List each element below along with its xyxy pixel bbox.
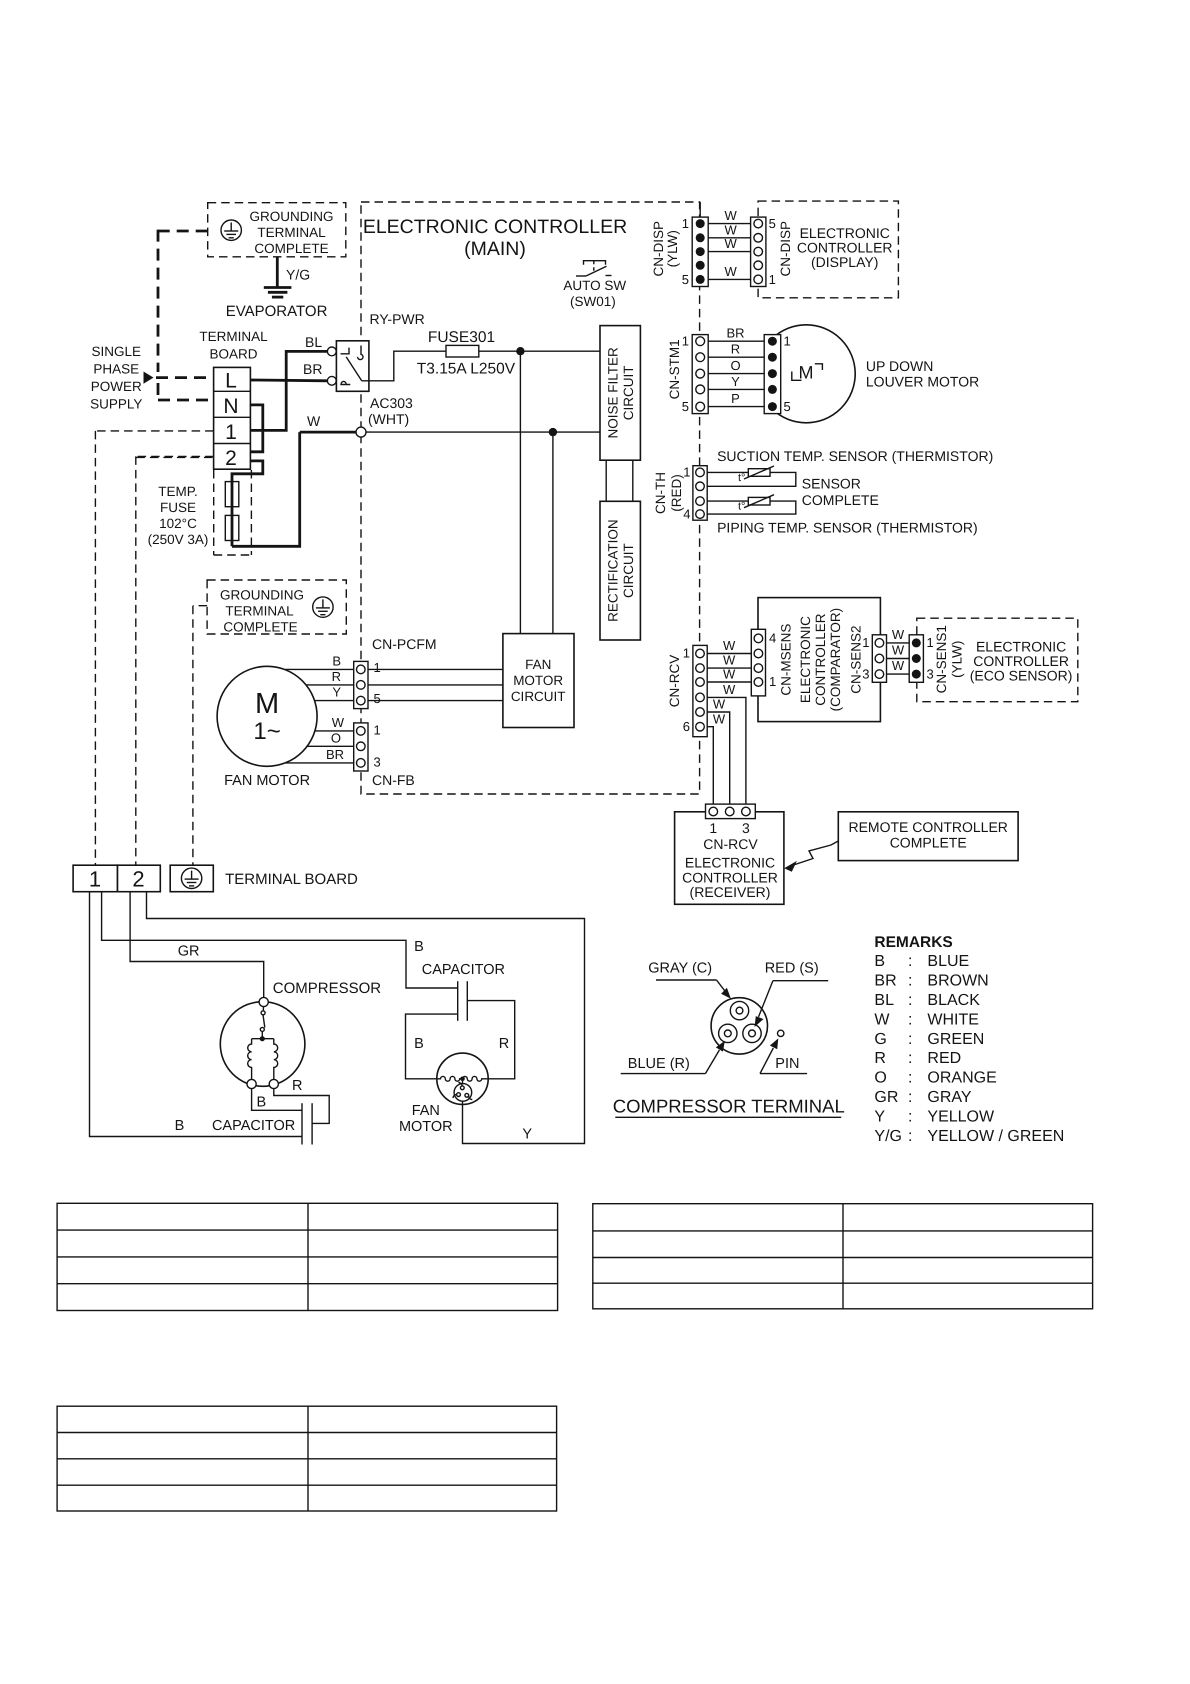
up down louver motor circle xyxy=(751,325,855,423)
grounding terminal complete box 2 xyxy=(207,580,346,635)
svg-text:W: W xyxy=(874,1011,890,1028)
svg-text:ELECTRONIC: ELECTRONIC xyxy=(798,616,813,703)
wire GR terminal2 to compressor xyxy=(130,892,264,998)
label BR R O Y P wires xyxy=(726,326,744,407)
label AUTO SW (SW01) xyxy=(563,278,626,309)
svg-text:TERMINAL BOARD: TERMINAL BOARD xyxy=(225,871,358,888)
wire fuse to noise filter xyxy=(479,350,600,352)
wire CN-RCV pin4 to receiver xyxy=(707,697,746,804)
svg-text:BLACK: BLACK xyxy=(927,992,980,1009)
svg-text:3: 3 xyxy=(374,755,381,770)
label GRAY (C) with leader xyxy=(648,961,731,999)
svg-text:R: R xyxy=(731,342,740,357)
wires W CN-DISP to display connector xyxy=(708,224,750,280)
wire dashed terminal 2 drop xyxy=(136,456,214,865)
junction dot on fuse line xyxy=(516,347,524,355)
svg-text:CN-RCV: CN-RCV xyxy=(703,836,758,852)
svg-text::: : xyxy=(908,1011,912,1028)
svg-text::: : xyxy=(908,973,912,990)
svg-text:2: 2 xyxy=(132,867,144,892)
connector louver motor side xyxy=(764,335,781,414)
terminal board ground box xyxy=(170,865,213,892)
svg-text:FUSE301: FUSE301 xyxy=(428,329,495,346)
svg-text:CN-FB: CN-FB xyxy=(372,772,415,788)
wire node AC303 into noise filter xyxy=(366,431,600,433)
svg-text:BOARD: BOARD xyxy=(209,347,257,362)
svg-text:102°C: 102°C xyxy=(159,516,197,531)
wire dashed terminal 1 drop xyxy=(95,431,213,865)
svg-text::: : xyxy=(908,1070,912,1087)
wire junction fuse line down to fan motor circuit xyxy=(519,351,521,633)
table 2 (empty) xyxy=(593,1204,1093,1309)
fan motor center dot xyxy=(460,1077,465,1082)
svg-text:TEMP.: TEMP. xyxy=(158,484,198,499)
svg-text:BLUE (R): BLUE (R) xyxy=(628,1056,690,1072)
svg-text:CN-DISP: CN-DISP xyxy=(651,221,666,277)
wire Y terminal2 to fan motor xyxy=(147,892,585,1144)
svg-text:1: 1 xyxy=(683,465,690,480)
svg-text:GROUNDING: GROUNDING xyxy=(250,209,334,224)
svg-text:1: 1 xyxy=(927,635,934,650)
wire temp fuse through path xyxy=(232,432,300,546)
svg-text:W: W xyxy=(892,643,905,658)
svg-text:ELECTRONIC: ELECTRONIC xyxy=(685,855,775,871)
receiver connector CN-RCV (board side) xyxy=(706,804,756,819)
svg-text:BL: BL xyxy=(874,992,894,1009)
svg-text:RECTIFICATION: RECTIFICATION xyxy=(606,519,621,622)
label REMOTE CONTROLLER COMPLETE xyxy=(848,819,1007,851)
svg-text:COMPLETE: COMPLETE xyxy=(890,835,967,851)
ground symbol (grounding terminal 2) xyxy=(313,597,333,617)
svg-text:REMARKS: REMARKS xyxy=(874,934,952,951)
terminal board (outdoor) box 1 xyxy=(73,865,117,892)
svg-text:CAPACITOR: CAPACITOR xyxy=(212,1118,295,1134)
svg-text:W: W xyxy=(892,658,905,673)
svg-text:CIRCUIT: CIRCUIT xyxy=(511,689,566,704)
svg-text:3: 3 xyxy=(862,666,869,681)
svg-text:(RED): (RED) xyxy=(669,474,684,512)
svg-text:B: B xyxy=(414,939,424,955)
wires CN-STM1 to louver motor connector xyxy=(708,341,764,406)
label W wires (CN-DISP) xyxy=(724,208,737,279)
svg-text:W: W xyxy=(724,264,737,279)
svg-text:(ECO SENSOR): (ECO SENSOR) xyxy=(970,668,1073,684)
svg-text:R: R xyxy=(332,669,341,684)
wire fan capacitor left to motor (B side) xyxy=(406,1014,458,1079)
terminal board (outdoor) box 2 xyxy=(118,865,161,892)
label PIN with leader xyxy=(760,1038,807,1073)
svg-text:5: 5 xyxy=(682,399,689,414)
label TEMP. FUSE 102degC (250V 3A) xyxy=(148,484,209,547)
svg-text:1: 1 xyxy=(89,867,101,892)
svg-text:R: R xyxy=(499,1036,509,1052)
svg-text:O: O xyxy=(874,1070,886,1087)
label BLUE (R) with leader xyxy=(621,1041,725,1074)
svg-text:EVAPORATOR: EVAPORATOR xyxy=(226,303,328,320)
compressor internal protector xyxy=(260,1007,265,1037)
svg-text:Y/G: Y/G xyxy=(286,267,310,283)
svg-text:YELLOW / GREEN: YELLOW / GREEN xyxy=(927,1128,1064,1145)
svg-text:COMPLETE: COMPLETE xyxy=(223,620,297,635)
svg-text:W: W xyxy=(724,236,737,251)
svg-text:CN-MSENS: CN-MSENS xyxy=(779,624,794,696)
svg-text:CN-SENS2: CN-SENS2 xyxy=(848,625,863,693)
wire O fan motor to CN-FB pin2 xyxy=(307,745,354,747)
terminal board L N 1 2 xyxy=(214,367,251,469)
svg-text:COMPLETE: COMPLETE xyxy=(254,241,328,256)
svg-text:RED: RED xyxy=(927,1050,961,1067)
svg-text:2: 2 xyxy=(225,447,237,470)
wire CN-RCV pin5 to receiver xyxy=(707,712,730,804)
wire terminal 2 to temp fuse xyxy=(232,461,263,482)
svg-text::: : xyxy=(908,1031,912,1048)
svg-text:4: 4 xyxy=(769,631,776,646)
connector CN-DISP (YLW) main side xyxy=(692,217,708,286)
svg-text:B: B xyxy=(175,1118,185,1134)
svg-text:BL: BL xyxy=(305,334,322,350)
ground (evaporator earth symbol) xyxy=(264,288,292,298)
svg-text:(250V 3A): (250V 3A) xyxy=(148,532,209,547)
svg-text:ORANGE: ORANGE xyxy=(927,1070,996,1087)
svg-text:Y/G: Y/G xyxy=(874,1128,902,1145)
svg-text:G: G xyxy=(874,1031,886,1048)
thermistor piping sensor xyxy=(738,495,774,513)
svg-text:TERMINAL: TERMINAL xyxy=(257,225,326,240)
arrow remote controller to receiver xyxy=(784,841,838,872)
label CN-TH (RED) rotated xyxy=(653,472,684,514)
svg-text:5: 5 xyxy=(682,272,689,287)
svg-text:GRAY (C): GRAY (C) xyxy=(648,961,712,977)
svg-text:R: R xyxy=(874,1050,886,1067)
label UP DOWN LOUVER MOTOR xyxy=(866,358,979,390)
wires CN-SENS2 to CN-SENS1 xyxy=(887,643,910,674)
svg-text:(MAIN): (MAIN) xyxy=(464,238,526,260)
svg-text:W: W xyxy=(332,715,345,730)
wire dashed grounding box 2 down to terminal board ground xyxy=(193,606,207,866)
svg-text:Y: Y xyxy=(522,1127,532,1143)
svg-text:P: P xyxy=(731,391,740,406)
svg-text:1~: 1~ xyxy=(253,718,280,745)
compressor terminal S (bottom right) xyxy=(269,1079,278,1088)
wire terminal 1 to relay BL contact xyxy=(250,351,327,430)
svg-text:GR: GR xyxy=(178,944,200,960)
label ELECTRONIC CONTROLLER (COMPARATOR) rotated xyxy=(798,608,843,712)
svg-text:RY-PWR: RY-PWR xyxy=(370,311,425,327)
connector CN-RCV xyxy=(693,645,707,736)
svg-text:NOISE FILTER: NOISE FILTER xyxy=(606,347,621,439)
svg-text:TERMINAL: TERMINAL xyxy=(199,329,268,344)
svg-text:B: B xyxy=(332,654,341,669)
label SENSOR COMPLETE xyxy=(802,476,879,509)
svg-text:(YLW): (YLW) xyxy=(950,641,965,678)
svg-text:N: N xyxy=(223,395,238,418)
svg-text:Y: Y xyxy=(731,374,740,389)
svg-text:(SW01): (SW01) xyxy=(570,294,616,309)
title ELECTRONIC CONTROLLER (MAIN) xyxy=(363,216,627,260)
wire stub main box to CN-DISP xyxy=(699,202,701,217)
svg-text:T3.15A L250V: T3.15A L250V xyxy=(417,361,516,378)
svg-text:CN-SENS1: CN-SENS1 xyxy=(934,625,949,693)
noise filter circuit block xyxy=(600,326,640,461)
svg-text:ELECTRONIC CONTROLLER: ELECTRONIC CONTROLLER xyxy=(363,216,627,238)
fan motor winding wavy line xyxy=(437,1076,488,1081)
svg-text::: : xyxy=(908,992,912,1009)
svg-text:1: 1 xyxy=(709,820,717,836)
svg-text:(RECEIVER): (RECEIVER) xyxy=(690,884,771,900)
auto switch SW01 symbol xyxy=(576,261,612,276)
svg-text:SUPPLY: SUPPLY xyxy=(90,397,142,412)
svg-text:CAPACITOR: CAPACITOR xyxy=(422,962,505,978)
svg-text:W: W xyxy=(723,682,736,697)
rectification circuit block xyxy=(600,501,640,640)
ground symbol (grounding terminal complete) xyxy=(221,220,241,240)
wires noise filter to rectification xyxy=(606,460,633,501)
label TERMINAL BOARD (indoor unit) xyxy=(199,329,268,362)
label ELECTRONIC CONTROLLER (DISPLAY) xyxy=(797,225,893,270)
temp fuse element F1 xyxy=(225,482,239,507)
svg-text:FUSE: FUSE xyxy=(160,500,196,515)
svg-text:M: M xyxy=(255,688,279,720)
svg-text:(WHT): (WHT) xyxy=(368,411,409,427)
svg-text:W: W xyxy=(307,413,321,429)
fan motor M 1~ xyxy=(217,666,317,766)
connector CN-SENS2 xyxy=(872,635,886,683)
svg-text:RED (S): RED (S) xyxy=(765,961,819,977)
fan motor (outdoor) circle xyxy=(437,1053,488,1104)
label ELECTRONIC CONTROLLER (RECEIVER) xyxy=(682,855,778,901)
svg-text:REMOTE CONTROLLER: REMOTE CONTROLLER xyxy=(848,819,1007,835)
svg-text:t°: t° xyxy=(738,472,745,484)
svg-text:COMPLETE: COMPLETE xyxy=(802,492,879,508)
svg-text:(DISPLAY): (DISPLAY) xyxy=(811,254,878,270)
wire junction W down to fan motor circuit xyxy=(552,432,554,633)
svg-text:M: M xyxy=(799,363,814,383)
wire BR fan motor to CN-FB pin3 xyxy=(285,762,354,764)
svg-text:CIRCUIT: CIRCUIT xyxy=(621,366,636,421)
svg-text:BR: BR xyxy=(874,973,896,990)
wire terminal N to terminal 2 (jog) xyxy=(250,405,262,452)
wire compressor R to capacitor xyxy=(274,1089,329,1124)
svg-text:UP DOWN: UP DOWN xyxy=(866,358,933,374)
wire dashed power to terminal L xyxy=(156,376,214,379)
svg-text:W: W xyxy=(892,627,905,642)
svg-text::: : xyxy=(908,1109,912,1126)
svg-text:3: 3 xyxy=(742,820,750,836)
svg-text:W: W xyxy=(723,653,736,668)
svg-text:POWER: POWER xyxy=(91,379,142,394)
temp fuse element F2 xyxy=(225,515,239,540)
connector CN-DISP display side xyxy=(751,217,766,286)
svg-text:W: W xyxy=(723,667,736,682)
label W wires (CN-SENS) xyxy=(892,627,905,673)
svg-text:GR: GR xyxy=(874,1089,898,1106)
svg-text:5: 5 xyxy=(374,691,381,706)
table 1 (empty) xyxy=(57,1203,557,1310)
connector CN-STM1 xyxy=(692,335,708,414)
connector CN-SENS1 (YLW) xyxy=(909,635,923,683)
svg-text:FAN: FAN xyxy=(412,1103,440,1119)
svg-text:PHASE: PHASE xyxy=(93,362,139,377)
label CN-DISP (YLW) rotated xyxy=(651,221,680,277)
svg-text:TERMINAL: TERMINAL xyxy=(225,604,294,619)
wire dashed link to grounding terminal xyxy=(158,230,208,372)
table 3 (empty) xyxy=(57,1406,556,1511)
wires CN-RCV pins 1-3 to CN-MSENS xyxy=(707,654,751,683)
svg-text:(COMPARATOR): (COMPARATOR) xyxy=(828,608,843,712)
connector CN-PCFM xyxy=(354,661,368,708)
svg-text:1: 1 xyxy=(784,334,791,349)
svg-text:BR: BR xyxy=(326,747,344,762)
label RED (S) with leader xyxy=(755,961,829,1028)
label CN-SENS1 (YLW) rotated xyxy=(934,625,965,693)
wire compressor B to capacitor xyxy=(252,1089,302,1111)
connector CN-MSENS xyxy=(751,629,765,696)
svg-text:SENSOR: SENSOR xyxy=(802,476,861,492)
svg-text:1: 1 xyxy=(862,635,869,650)
fuse FUSE301 element xyxy=(446,345,479,357)
wire W fan motor to CN-FB pin1 xyxy=(315,730,354,732)
wire fan capacitor right to motor (R side) xyxy=(467,1001,514,1079)
svg-text:AUTO SW: AUTO SW xyxy=(563,278,626,293)
wire B terminal1 to fan capacitor xyxy=(102,892,458,988)
label W wires (CN-RCV 1-3) xyxy=(723,638,736,682)
svg-text:6: 6 xyxy=(683,719,690,734)
svg-text:PIPING TEMP. SENSOR (THERMISTO: PIPING TEMP. SENSOR (THERMISTOR) xyxy=(717,520,978,536)
label SINGLE PHASE POWER SUPPLY xyxy=(90,344,142,412)
svg-text:1: 1 xyxy=(769,674,776,689)
compressor terminal R (bottom left) xyxy=(247,1079,256,1088)
grounding terminal complete box (evaporator side) xyxy=(208,203,346,257)
svg-text:5: 5 xyxy=(784,399,791,414)
svg-text:CN-TH: CN-TH xyxy=(653,472,668,514)
svg-text:t°: t° xyxy=(738,501,745,513)
svg-text:1: 1 xyxy=(682,216,689,231)
wire W to node AC303 xyxy=(300,431,357,434)
svg-text:O: O xyxy=(331,731,341,746)
svg-text:COMPRESSOR TERMINAL: COMPRESSOR TERMINAL xyxy=(613,1096,845,1117)
fan symbol xyxy=(453,1081,472,1105)
svg-text:1: 1 xyxy=(683,646,690,661)
svg-text:BR: BR xyxy=(303,361,322,377)
label COMPRESSOR TERMINAL xyxy=(613,1096,845,1118)
wire loop suction thermistor xyxy=(707,472,796,486)
svg-text:LOUVER MOTOR: LOUVER MOTOR xyxy=(866,374,979,390)
svg-text:R: R xyxy=(292,1078,302,1094)
svg-text:GRAY: GRAY xyxy=(927,1089,971,1106)
svg-text:GROUNDING: GROUNDING xyxy=(220,588,304,603)
connector CN-FB xyxy=(354,723,368,771)
temp fuse dashed enclosure xyxy=(136,457,251,555)
svg-text:WHITE: WHITE xyxy=(927,1011,979,1028)
svg-text:CN-PCFM: CN-PCFM xyxy=(372,636,437,652)
label ELECTRONIC CONTROLLER (ECO SENSOR) xyxy=(970,639,1073,684)
svg-text:1: 1 xyxy=(225,421,237,444)
pin stub (compressor terminal) xyxy=(778,1030,784,1036)
svg-text:MOTOR: MOTOR xyxy=(399,1119,453,1135)
wire Y fan motor to CN-PCFM pin3 xyxy=(315,700,354,702)
connector CN-TH (RED) xyxy=(693,466,707,521)
svg-text:MOTOR: MOTOR xyxy=(513,673,563,688)
wire loop piping thermistor xyxy=(707,501,796,514)
svg-text:W: W xyxy=(713,711,726,726)
svg-text:W: W xyxy=(723,638,736,653)
svg-text:PIN: PIN xyxy=(775,1056,799,1072)
electronic controller (comparator) box xyxy=(758,598,880,722)
svg-text:CONTROLLER: CONTROLLER xyxy=(813,613,828,706)
svg-text:AC303: AC303 xyxy=(370,395,413,411)
svg-text:L: L xyxy=(225,370,237,393)
label AC303 (WHT) xyxy=(368,395,413,427)
svg-text:B: B xyxy=(414,1036,424,1052)
svg-text:FAN: FAN xyxy=(525,657,551,672)
compressor terminal diagram circle xyxy=(711,998,767,1054)
relay contact BR (open) xyxy=(327,376,336,385)
svg-text:1: 1 xyxy=(374,660,381,675)
wires CN-PCFM to fan motor circuit xyxy=(368,669,503,700)
wire relay output to fuse FUSE301 xyxy=(362,351,446,381)
svg-text:3: 3 xyxy=(927,666,934,681)
compressor windings xyxy=(248,1039,278,1080)
svg-text::: : xyxy=(908,1050,912,1067)
node AC303 (WHT) open terminal xyxy=(356,427,366,437)
thermistor suction sensor xyxy=(738,466,774,484)
svg-text:1: 1 xyxy=(374,723,381,738)
electronic controller (main) dashed enclosure xyxy=(361,202,700,794)
svg-text:SUCTION TEMP. SENSOR (THERMIST: SUCTION TEMP. SENSOR (THERMISTOR) xyxy=(717,448,993,464)
svg-text:CN-DISP: CN-DISP xyxy=(778,221,793,277)
svg-text:SINGLE: SINGLE xyxy=(92,344,142,359)
wire B terminal1 to compressor capacitor xyxy=(90,892,303,1137)
wire Y/G (evaporator ground lead) xyxy=(276,257,279,288)
svg-text:CN-RCV: CN-RCV xyxy=(667,655,682,708)
wire terminal L to relay BR contact xyxy=(250,379,327,383)
electronic controller (display) dashed box xyxy=(758,201,898,298)
svg-text:FAN MOTOR: FAN MOTOR xyxy=(224,773,310,789)
capacitor (compressor) plates xyxy=(302,1103,312,1144)
remote controller complete box xyxy=(838,812,1018,861)
electronic controller (eco sensor) dashed box xyxy=(917,618,1078,702)
svg-text:1: 1 xyxy=(682,334,689,349)
svg-text:W: W xyxy=(724,222,737,237)
svg-text:W: W xyxy=(713,697,726,712)
svg-text:BROWN: BROWN xyxy=(927,973,988,990)
relay contact BL (open) xyxy=(327,347,336,356)
wire B fan motor to CN-PCFM pin1 xyxy=(284,668,353,670)
svg-text:Y: Y xyxy=(332,685,341,700)
svg-text:CN-STM1: CN-STM1 xyxy=(667,339,682,399)
svg-text:YELLOW: YELLOW xyxy=(927,1109,995,1126)
junction dot on W line xyxy=(549,428,557,436)
svg-text:BR: BR xyxy=(726,326,744,341)
svg-text:(YLW): (YLW) xyxy=(665,230,680,267)
compressor winding junction dot xyxy=(260,1036,265,1041)
svg-text:4: 4 xyxy=(683,507,690,522)
svg-text:Y: Y xyxy=(874,1109,885,1126)
electronic controller (receiver) box xyxy=(675,812,784,905)
svg-text:1: 1 xyxy=(769,272,776,287)
arrow power supply entry xyxy=(144,372,154,384)
relay RY-PWR body xyxy=(336,341,369,392)
compressor body circle xyxy=(220,1002,305,1087)
svg-text:5: 5 xyxy=(769,216,776,231)
wire R fan motor to CN-PCFM pin2 xyxy=(306,684,354,686)
svg-text::: : xyxy=(908,953,912,970)
fan motor circuit block xyxy=(503,634,574,728)
capacitor (fan) plates xyxy=(458,981,468,1021)
svg-text:CIRCUIT: CIRCUIT xyxy=(621,543,636,598)
label FAN MOTOR (outdoor) xyxy=(399,1103,453,1135)
ground symbol (terminal board) xyxy=(181,868,201,888)
